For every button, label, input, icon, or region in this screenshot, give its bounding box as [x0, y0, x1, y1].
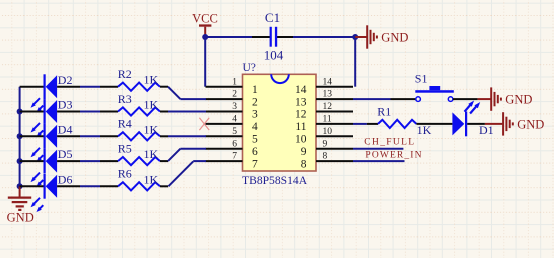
svg-text:11: 11: [295, 121, 306, 133]
pin 4: [206, 115, 259, 134]
svg-text:13: 13: [323, 90, 333, 100]
svg-text:CH_FULL: CH_FULL: [364, 137, 415, 147]
pin 8: [301, 152, 353, 171]
svg-text:D3: D3: [58, 98, 73, 112]
svg-text:1K: 1K: [144, 172, 159, 186]
wire/pins D4 to R4: [57, 135, 118, 137]
wire R2 to pin 2 with jog: [160, 87, 206, 99]
svg-text:GND: GND: [505, 93, 532, 107]
pin 11: [295, 115, 353, 134]
wire/pins D3 to R3: [57, 111, 118, 113]
LED D3: [20, 98, 73, 138]
svg-text:1: 1: [232, 77, 237, 87]
wire pin 11 to R1: [353, 123, 378, 125]
capacitor C1: [252, 10, 293, 62]
svg-text:R1: R1: [377, 104, 391, 118]
svg-text:R6: R6: [118, 167, 132, 181]
svg-text:VCC: VCC: [192, 12, 218, 26]
svg-text:1K: 1K: [144, 73, 159, 87]
svg-text:5: 5: [252, 134, 258, 146]
wire pin 13 to S1: [353, 98, 416, 100]
svg-text:D4: D4: [58, 122, 73, 136]
svg-text:10: 10: [323, 127, 333, 137]
svg-text:5: 5: [232, 127, 237, 137]
LED D2: [20, 73, 73, 113]
svg-text:2: 2: [252, 96, 258, 108]
pin 1: [206, 77, 259, 96]
power ground GND after S1: [478, 87, 533, 110]
svg-text:D5: D5: [58, 147, 73, 161]
svg-text:10: 10: [295, 134, 307, 146]
svg-text:104: 104: [264, 47, 284, 62]
node B junction dot at C1 right: [352, 34, 358, 40]
power ground GND after D1: [485, 112, 544, 135]
wire left bus vertical: [19, 87, 21, 187]
svg-text:2: 2: [232, 90, 237, 100]
svg-text:4: 4: [232, 115, 237, 125]
svg-text:8: 8: [323, 152, 328, 162]
svg-text:7: 7: [252, 158, 258, 170]
svg-text:11: 11: [323, 115, 332, 125]
wire/pins D2 to R2: [57, 86, 118, 88]
wire S1 to ground: [453, 98, 478, 100]
pin 14: [295, 77, 353, 96]
svg-text:12: 12: [323, 102, 333, 112]
wire R6 to pin 7 long diagonal: [160, 161, 206, 186]
wire R4 to pin 5: [160, 135, 206, 137]
svg-text:7: 7: [232, 152, 237, 162]
resistor R6: [118, 167, 160, 191]
svg-text:D2: D2: [58, 73, 73, 87]
resistor R3: [118, 92, 160, 116]
svg-text:14: 14: [295, 84, 307, 96]
svg-text:U?: U?: [243, 62, 256, 74]
svg-text:14: 14: [323, 77, 333, 87]
svg-text:4: 4: [252, 121, 258, 133]
wire node B down to pin 14: [354, 37, 356, 87]
wire pin 9 net CH_FULL: [353, 148, 403, 150]
svg-text:1K: 1K: [144, 147, 159, 161]
pin 6: [206, 139, 259, 158]
svg-text:D1: D1: [479, 123, 494, 137]
svg-text:TB8P58S14A: TB8P58S14A: [242, 174, 308, 187]
svg-text:12: 12: [295, 109, 307, 121]
power port VCC: [192, 12, 218, 38]
junction dot row D4: [17, 133, 23, 139]
svg-text:R5: R5: [118, 142, 132, 156]
svg-text:1K: 1K: [144, 98, 159, 112]
svg-text:9: 9: [323, 139, 328, 149]
svg-text:3: 3: [252, 109, 258, 121]
wire R5 to pin 6 with jog: [160, 149, 206, 161]
no-connect X on pin 4: [199, 118, 209, 130]
resistor R1: [377, 104, 431, 137]
switch S1: [415, 71, 454, 101]
svg-text:6: 6: [232, 139, 237, 149]
svg-text:1: 1: [252, 84, 258, 96]
LED D1: [452, 101, 493, 138]
wire VCC node down to pin 1: [204, 37, 206, 87]
wire/pins D5 to R5: [57, 160, 118, 162]
resistor R5: [118, 142, 160, 166]
svg-text:13: 13: [295, 96, 307, 108]
svg-text:1K: 1K: [144, 122, 159, 136]
wire R3 to pin 3: [160, 111, 206, 113]
wire C1 right to GND drop node: [293, 36, 355, 38]
svg-text:POWER_IN: POWER_IN: [365, 150, 422, 160]
svg-text:C1: C1: [265, 10, 280, 25]
svg-text:GND: GND: [517, 117, 544, 131]
junction dot row D5: [17, 158, 23, 164]
op-amp U1 IC body TB8P58S14A: [243, 74, 317, 171]
junction dot row D6: [17, 183, 23, 189]
wire/pins D6 to R6: [57, 185, 118, 187]
LED D4: [20, 122, 73, 162]
svg-text:3: 3: [232, 102, 237, 112]
pin 5: [206, 127, 259, 146]
resistor R2: [118, 67, 160, 91]
wire VCC node to C1 left: [205, 36, 252, 38]
pin 2: [206, 90, 259, 109]
wire R1 to D1: [416, 123, 452, 125]
pin 13: [295, 90, 353, 109]
wire pin 8 net POWER_IN: [353, 160, 405, 162]
svg-text:9: 9: [301, 146, 307, 158]
pin 10: [295, 127, 353, 146]
wire D1 to ground: [467, 123, 485, 125]
LED D6: [20, 172, 73, 212]
node A junction dot at VCC drop: [202, 34, 208, 40]
junction dot row D3: [17, 109, 23, 115]
pin 9: [301, 139, 353, 158]
svg-text:R4: R4: [118, 117, 132, 131]
svg-text:S1: S1: [415, 71, 428, 85]
svg-text:R3: R3: [118, 92, 132, 106]
power ground GND top right of C1: [355, 25, 408, 48]
earth ground GND bottom left: [7, 186, 34, 224]
svg-text:6: 6: [252, 146, 258, 158]
svg-text:GND: GND: [381, 30, 408, 44]
pin 3: [206, 102, 259, 121]
pin 7: [206, 152, 259, 171]
svg-text:R2: R2: [118, 67, 132, 81]
svg-text:D6: D6: [58, 172, 73, 186]
svg-text:GND: GND: [7, 210, 34, 224]
resistor R4: [118, 117, 160, 141]
LED D5: [20, 147, 73, 187]
svg-text:8: 8: [301, 158, 307, 170]
pin 12: [295, 102, 353, 121]
